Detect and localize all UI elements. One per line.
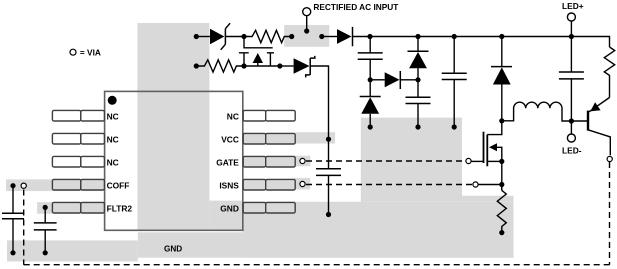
svg-text:VCC: VCC (221, 135, 239, 145)
svg-text:NC: NC (227, 112, 239, 122)
svg-text:GND: GND (164, 244, 182, 253)
svg-text:GATE: GATE (216, 158, 239, 168)
svg-text:ISNS: ISNS (219, 181, 239, 191)
svg-text:NC: NC (107, 135, 119, 145)
svg-text:FLTR2: FLTR2 (107, 204, 133, 214)
svg-text:NC: NC (107, 158, 119, 168)
svg-text:LED+: LED+ (562, 1, 584, 11)
svg-text:NC: NC (107, 112, 119, 122)
svg-text:= VIA: = VIA (80, 47, 101, 57)
svg-text:RECTIFIED AC INPUT: RECTIFIED AC INPUT (313, 2, 398, 12)
svg-text:LED-: LED- (562, 146, 582, 156)
svg-text:GND: GND (220, 204, 239, 214)
svg-text:COFF: COFF (107, 181, 130, 191)
